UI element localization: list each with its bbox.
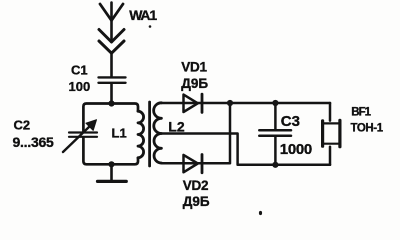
capacitor C3 [259,103,291,165]
svg-text:C1: C1 [71,63,88,78]
node: C1 to tank top [108,100,114,106]
speck near WA1 [149,25,152,28]
inductor L2 [154,103,162,163]
capacitor C2 [63,120,97,152]
svg-text:1000: 1000 [280,141,312,158]
svg-text:L2: L2 [168,119,185,135]
svg-text:BF1: BF1 [351,107,371,119]
speck bottom [259,211,262,215]
svg-text:9...365: 9...365 [13,134,55,150]
inductor L1 [138,111,144,158]
antenna WA1 [99,3,124,77]
svg-text:Д9Б: Д9Б [183,194,210,209]
svg-text:C3: C3 [281,113,300,130]
wire tank bottom [83,138,138,164]
node: VD2 riser on top rail [227,100,233,106]
svg-text:100: 100 [69,79,91,94]
wire VD2 output riser [161,103,230,163]
svg-text:Д9Б: Д9Б [181,76,208,91]
svg-text:VD1: VD1 [181,59,207,74]
wire center tap to bottom rail [161,134,330,165]
svg-text:ТОН-1: ТОН-1 [351,123,384,135]
wire top rail [161,102,330,105]
capacitor C1 [99,77,126,103]
node: tank bottom to ground [108,161,114,167]
svg-text:WA1: WA1 [129,7,157,23]
svg-text:L1: L1 [112,126,127,141]
svg-text:C2: C2 [14,118,31,133]
headphone BF1 [323,103,340,165]
node: C3 top [272,100,278,106]
svg-text:VD2: VD2 [183,178,208,193]
diode VD2 [184,155,203,173]
node: C3 bottom [272,162,278,168]
ground [98,164,127,181]
diode VD1 [184,94,203,112]
transformer core [148,102,151,166]
wire tank top [83,104,138,132]
